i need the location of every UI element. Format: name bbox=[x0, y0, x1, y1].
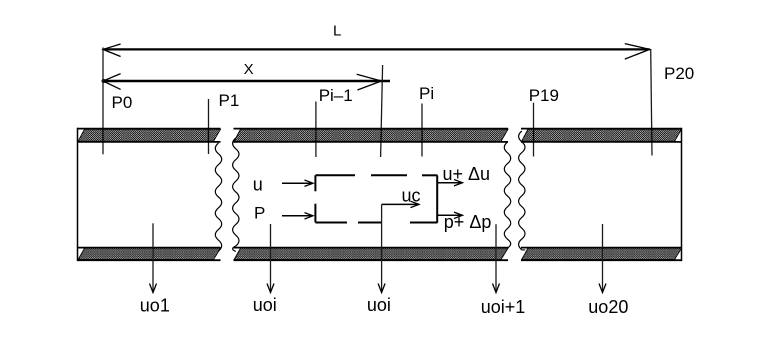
arrowhead X left bbox=[103, 74, 121, 90]
dimension line L bbox=[103, 48, 650, 50]
control volume left edge (dashed) bbox=[314, 175, 316, 191]
svg-text:Pi–1: Pi–1 bbox=[319, 86, 353, 105]
outlet arrow uo1 bbox=[152, 223, 154, 292]
svg-text:p+ Δp: p+ Δp bbox=[444, 212, 492, 232]
dimension line X bbox=[103, 80, 390, 82]
svg-text:P20: P20 bbox=[664, 64, 694, 83]
arrow u+du bbox=[437, 182, 462, 184]
svg-text:u: u bbox=[253, 175, 263, 195]
outlet arrow uoi bbox=[270, 224, 272, 293]
svg-text:P1: P1 bbox=[219, 91, 240, 110]
arrowhead L right bbox=[625, 44, 650, 60]
arrow p bbox=[282, 215, 313, 217]
svg-text:u+ Δu: u+ Δu bbox=[443, 164, 491, 184]
svg-text:X: X bbox=[244, 61, 254, 78]
extension line P20 bbox=[651, 49, 652, 155]
bottom wall segment 2 (hatched) bbox=[234, 248, 508, 259]
control volume top edge (dashed) bbox=[316, 174, 356, 176]
control volume right edge bbox=[436, 175, 438, 222]
control volume bottom edge (dashed) bbox=[316, 222, 348, 224]
outlet arrow uoi bbox=[381, 204, 383, 292]
grid line P1 bbox=[208, 99, 210, 154]
bottom wall segment 1 (hatched) bbox=[78, 248, 220, 259]
svg-text:P0: P0 bbox=[112, 93, 133, 112]
break wavy line 2b bbox=[519, 131, 525, 250]
station line at X right end bbox=[381, 65, 383, 157]
bottom wall segment 3 (hatched) bbox=[522, 248, 682, 259]
svg-text:uo1: uo1 bbox=[140, 296, 170, 316]
arrow p+dp bbox=[437, 214, 462, 216]
svg-text:uoi: uoi bbox=[253, 295, 277, 315]
svg-text:L: L bbox=[333, 22, 341, 39]
break wavy line 1b bbox=[233, 138, 239, 252]
svg-text:P: P bbox=[254, 204, 265, 223]
svg-text:P19: P19 bbox=[529, 86, 559, 105]
grid line P19 bbox=[533, 103, 535, 157]
top wall segment 1 (hatched) bbox=[78, 129, 220, 141]
grid line Pi bbox=[421, 104, 423, 157]
arrowhead L left bbox=[103, 44, 121, 57]
pipe left edge bbox=[77, 128, 79, 261]
top wall segment 3 (hatched) bbox=[522, 129, 682, 141]
svg-text:uc: uc bbox=[402, 186, 421, 206]
arrow uc bbox=[382, 203, 419, 205]
svg-text:uoi+1: uoi+1 bbox=[481, 297, 526, 317]
svg-text:uoi: uoi bbox=[367, 295, 391, 315]
break wavy line 2a bbox=[504, 142, 510, 248]
dot at X origin bbox=[102, 79, 106, 83]
outlet arrow uo20 bbox=[602, 224, 604, 293]
outlet arrow uoi+1 bbox=[495, 224, 497, 292]
arrowhead X right bbox=[357, 74, 382, 90]
extension line at P0 bbox=[102, 48, 104, 155]
arrow u bbox=[282, 182, 313, 184]
svg-text:uo20: uo20 bbox=[588, 297, 628, 317]
svg-text:Pi: Pi bbox=[419, 84, 434, 103]
break wavy line 1a bbox=[215, 143, 221, 251]
grid line Pi-1 bbox=[315, 102, 317, 158]
top wall segment 2 (hatched) bbox=[234, 129, 508, 141]
pipe right edge bbox=[681, 128, 683, 261]
